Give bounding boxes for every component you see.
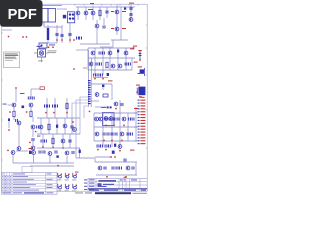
wire (76, 49, 89, 51)
wire (88, 69, 132, 71)
wire (32, 129, 34, 137)
power flag (119, 150, 121, 152)
capacitor C21 (44, 139, 47, 142)
capacitor C13 (36, 125, 39, 128)
diode D5 (56, 125, 58, 128)
power flag +V (15, 87, 17, 89)
resistor R1 (99, 10, 101, 16)
wire (56, 118, 58, 134)
note box (4, 52, 20, 68)
net label (108, 80, 113, 81)
resistor R7 (103, 94, 108, 97)
transistor Q36 (48, 152, 52, 156)
wire (30, 107, 32, 111)
transistor Q6 (115, 27, 119, 31)
wire (12, 155, 14, 163)
diode D7 (107, 106, 109, 108)
wire (30, 89, 32, 99)
spare transistor S1 (57, 173, 62, 181)
wire (43, 22, 45, 27)
capacitor C7 (79, 36, 82, 39)
transistor Q26 (111, 64, 115, 68)
text (83, 67, 87, 70)
wire (111, 84, 113, 100)
capacitor C14 (32, 138, 35, 141)
wire (94, 112, 137, 114)
capacitor C37 (128, 117, 131, 120)
capacitor C11 (32, 96, 35, 99)
wire (92, 7, 94, 20)
spare transistor S6 (72, 184, 77, 192)
wire (87, 48, 89, 70)
capacitor C39 (103, 132, 106, 135)
capacitor C28 (125, 62, 128, 65)
wire (116, 5, 118, 35)
svg-text:PDF: PDF (8, 7, 37, 23)
capacitor C35 (113, 117, 116, 120)
wire (13, 117, 15, 120)
wire (79, 148, 81, 158)
wire (8, 104, 13, 106)
wire (31, 88, 40, 90)
transistor Q9 (29, 103, 33, 107)
capacitor C6 (76, 36, 79, 39)
footer text (75, 192, 147, 194)
wire (119, 113, 121, 147)
sheet border frame (2, 4, 148, 191)
wire (96, 20, 98, 44)
power flag (73, 39, 75, 41)
wire (120, 7, 122, 40)
wire (135, 162, 137, 175)
wire (88, 57, 135, 59)
transistor Q34 (11, 151, 15, 155)
wire (42, 134, 44, 148)
diode D15 (79, 150, 81, 153)
transistor Q7 (129, 18, 133, 22)
wire (102, 87, 104, 90)
value label (37, 135, 40, 138)
power flag (42, 146, 44, 148)
capacitor C52 (72, 151, 75, 154)
power flag (111, 140, 113, 142)
frame zone tick marks (2, 4, 148, 191)
diode D14 (112, 151, 115, 154)
transistor Q20 (109, 117, 113, 121)
power flag (22, 36, 24, 38)
connector J5 (138, 100, 146, 145)
connector J4 (136, 85, 145, 98)
wire (102, 48, 104, 75)
value label (20, 92, 25, 95)
power flag (69, 39, 71, 41)
text (48, 51, 57, 54)
net label above title block (124, 177, 127, 178)
power flag (66, 112, 68, 114)
wire (69, 23, 71, 43)
net label +RAIL (129, 3, 134, 4)
capacitor C58 (124, 158, 127, 161)
transistor Q25 (89, 62, 93, 66)
transistor Q-mid (114, 102, 118, 106)
PDF badge (0, 0, 43, 27)
wire (62, 134, 64, 148)
diode D10 (107, 73, 109, 76)
capacitor C23 (121, 103, 124, 106)
wire (102, 113, 104, 147)
capacitor C26 (96, 62, 99, 65)
ic U1 box (103, 113, 115, 126)
capacitor C-bulk (47, 28, 49, 40)
capacitor C15 (44, 104, 47, 107)
power flag (62, 147, 64, 149)
wire (32, 141, 34, 146)
power flag (123, 125, 125, 127)
node pwr-in (2, 29, 12, 31)
power flag (52, 147, 54, 149)
wire (88, 50, 90, 78)
wire (37, 147, 80, 149)
capacitor C-in (8, 119, 10, 122)
power flag (29, 142, 31, 144)
capacitor C10 (28, 96, 31, 99)
diode D1 (63, 15, 66, 19)
wire (131, 58, 133, 70)
wire (88, 47, 135, 49)
net label (133, 46, 137, 47)
diode D13 (56, 155, 58, 157)
capacitor C30 (93, 73, 96, 76)
wire (94, 48, 96, 75)
wire (64, 118, 66, 134)
transistor Q35 (32, 151, 36, 155)
bus wire (76, 100, 88, 148)
wire (94, 158, 96, 162)
capacitor C38 (132, 117, 135, 120)
value label (37, 45, 42, 48)
transistor Q3 (91, 11, 95, 15)
transistor Q30 (122, 117, 126, 121)
power flag (57, 165, 59, 167)
power flag connector (89, 111, 91, 113)
capacitor C48 (108, 144, 111, 147)
net label (130, 150, 135, 151)
bus wire (80, 97, 88, 134)
transistor Q37 (65, 151, 69, 155)
wire (127, 113, 129, 141)
wire (47, 42, 57, 44)
wire (32, 117, 34, 122)
wire (95, 161, 137, 163)
wire (44, 26, 62, 28)
capacitor C12 (15, 119, 18, 122)
power flag (9, 111, 11, 113)
transistor Q18 (95, 93, 99, 97)
resistor R5 (48, 124, 50, 130)
capacitor C3 (69, 33, 72, 36)
resistor R3 (30, 111, 32, 117)
power flag (35, 131, 37, 133)
transistor Q13 (31, 146, 35, 150)
connector J1 (39, 43, 47, 48)
power flag (61, 39, 63, 41)
transistor Q19 (104, 117, 108, 121)
wire (46, 98, 48, 118)
power flag (125, 176, 127, 178)
wire (95, 156, 112, 158)
transistor Q23 (108, 51, 112, 55)
transistor Q10 (17, 121, 21, 125)
wire (100, 46, 113, 48)
wire (119, 100, 121, 113)
capacitor C44 (130, 132, 133, 135)
net label (29, 148, 33, 149)
capacitor C9 (130, 13, 133, 16)
wire (106, 7, 108, 18)
wire (54, 98, 56, 118)
transistor Q39 (126, 166, 130, 170)
capacitor C57 (132, 166, 135, 169)
capacitor C32 (100, 73, 103, 76)
wire (76, 6, 135, 8)
text (48, 50, 57, 53)
wire (111, 113, 113, 147)
wire (91, 100, 99, 102)
capacitor C41 (111, 132, 114, 135)
transistor Q14 (39, 125, 43, 129)
wire (91, 83, 112, 85)
capacitor C20 (41, 139, 44, 142)
power flag (94, 78, 96, 80)
transistor Q2 (84, 11, 88, 15)
transistor Q5 (115, 10, 119, 14)
power flag (106, 176, 108, 178)
capacitor C1 (56, 33, 59, 36)
power flag (26, 111, 28, 113)
capacitor C31 (97, 73, 100, 76)
wire (52, 134, 54, 148)
bus wire (72, 103, 88, 125)
wire (8, 118, 10, 128)
capacitor C18 (55, 104, 58, 107)
net label (122, 11, 126, 12)
transistor Q12 (31, 125, 35, 129)
wire (66, 156, 68, 163)
wire (49, 156, 51, 163)
net label (140, 97, 145, 98)
capacitor C53 (104, 166, 107, 169)
net label (90, 3, 94, 4)
wire (18, 125, 20, 146)
wire (96, 174, 137, 176)
capacitor C33 (105, 117, 108, 120)
power flag (52, 47, 54, 49)
wire (69, 134, 71, 148)
wire (47, 25, 49, 43)
transistor Q32 (120, 132, 124, 136)
transistor Q31 (95, 132, 99, 136)
wire (94, 140, 137, 142)
net label (130, 48, 134, 49)
net label (134, 108, 138, 109)
diode D12 (29, 151, 31, 154)
capacitor C-out (138, 50, 141, 61)
diode D3 (40, 87, 45, 90)
revision table (2, 173, 57, 195)
spare transistor S3 (72, 173, 77, 181)
transistor Q29 (99, 117, 103, 121)
transformer T1 (41, 6, 63, 27)
wire (57, 8, 67, 10)
capacitor C25 (102, 51, 105, 54)
power flag (45, 112, 47, 114)
wire (37, 133, 80, 135)
power flag (110, 156, 112, 158)
transistor Q8 (12, 103, 16, 107)
power flag mid-left (72, 121, 74, 123)
capacitor C5 (103, 25, 106, 28)
wire (48, 118, 50, 134)
diode D4 (22, 106, 25, 109)
net label (122, 28, 126, 29)
wire (95, 106, 106, 108)
wire (93, 113, 95, 141)
power flag (113, 125, 115, 127)
power flag (105, 149, 107, 151)
junction box (22, 167, 32, 173)
transistor Q11 (17, 147, 21, 151)
power flag (103, 140, 105, 142)
wire (80, 43, 110, 45)
wire (16, 150, 28, 152)
power flag (8, 129, 10, 131)
diode D11 (114, 144, 116, 147)
wire (37, 45, 39, 47)
net label (101, 107, 106, 108)
wire (93, 77, 108, 79)
wire (117, 48, 119, 70)
transistor Q38 (98, 166, 102, 170)
capacitor C17 (52, 104, 55, 107)
fuse F1 (34, 49, 49, 62)
wire (13, 107, 15, 111)
power flag (7, 150, 9, 152)
wire (103, 18, 105, 25)
capacitor C49 (39, 150, 42, 153)
transistor Q24 (124, 51, 128, 55)
bridge rectifier BR1 (68, 12, 75, 23)
wire (75, 148, 77, 158)
wire (91, 58, 93, 78)
wire (30, 165, 74, 167)
value label (3, 103, 7, 106)
power flag (97, 149, 99, 151)
sheet background (0, 0, 149, 198)
power flag right (133, 47, 135, 49)
wire (111, 39, 128, 41)
spare transistor S2 (65, 173, 70, 181)
capacitor C34 (109, 117, 112, 120)
value label (49, 44, 55, 47)
wire (37, 117, 80, 119)
diode D2 (124, 8, 126, 10)
wire (85, 7, 87, 20)
text (38, 60, 43, 63)
capacitor C43 (127, 132, 130, 135)
capacitor C27 (99, 62, 102, 65)
transistor Q27 (118, 64, 122, 68)
transistor Q15 (63, 124, 67, 128)
capacitor C22 (69, 139, 72, 142)
capacitor C16 (47, 104, 50, 107)
capacitor C24 (99, 51, 102, 54)
spare transistor S4 (57, 184, 62, 192)
wire (77, 7, 79, 20)
capacitor C47 (105, 144, 108, 147)
bus wire (84, 106, 88, 118)
wire (130, 5, 132, 22)
resistor R4 (66, 103, 68, 109)
capacitor C4 (106, 10, 109, 13)
capacitor C42 (115, 132, 118, 135)
wire (125, 48, 127, 70)
capacitor C51 (55, 150, 58, 153)
wire (61, 25, 63, 43)
net label (111, 11, 114, 12)
transistor Q28 (95, 117, 99, 121)
capacitor C54 (112, 166, 115, 169)
net label (111, 28, 114, 29)
wire (13, 162, 74, 164)
wire (109, 48, 111, 70)
resistor R2 (13, 111, 15, 117)
power flag (115, 108, 117, 110)
capacitor C19 (71, 125, 74, 128)
power flag (102, 78, 104, 80)
wire (40, 118, 42, 134)
power flag (114, 156, 116, 158)
wire (33, 155, 35, 163)
value label (75, 171, 79, 174)
wire (112, 40, 114, 47)
capacitor C50 (43, 150, 46, 153)
diode D9 (117, 50, 119, 53)
power flag mid (73, 68, 75, 70)
resistor R6 (52, 138, 54, 144)
diode D6 (102, 85, 104, 87)
trimmer RV1 (138, 66, 145, 76)
power flag (26, 36, 28, 38)
wire (15, 89, 17, 102)
transistor Q1 (76, 11, 80, 15)
capacitor C46 (100, 144, 103, 147)
value label (88, 8, 93, 11)
power flag (53, 112, 55, 114)
wire (135, 107, 137, 141)
diode D8 (110, 106, 112, 108)
transistor Q-vas (73, 128, 77, 132)
transistor Q4 (95, 24, 99, 28)
capacitor C8 (130, 7, 133, 10)
power flag (56, 39, 58, 41)
transistor Q16 (61, 139, 65, 143)
capacitor C55 (116, 166, 119, 169)
power flag +V1 (8, 36, 10, 38)
capacitor C40 (107, 132, 110, 135)
resistor R8 (106, 62, 108, 68)
spare transistor S5 (65, 184, 70, 192)
power flag (48, 47, 50, 49)
